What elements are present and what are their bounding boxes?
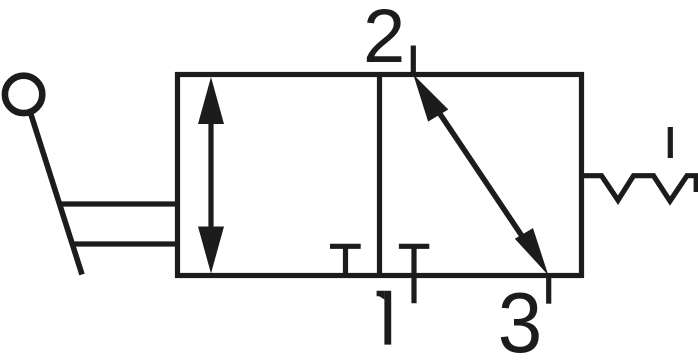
diagonal flow arrow head top <box>413 75 448 122</box>
lever upper link <box>60 201 178 206</box>
valve body outline <box>178 75 582 276</box>
blocked port T left <box>330 246 361 275</box>
lever knob circle <box>5 76 42 113</box>
port label 1 <box>377 291 392 345</box>
port 2 stub <box>411 46 416 75</box>
blocked port T right <box>399 244 429 249</box>
spring tick mark <box>668 127 673 158</box>
lever lower link <box>72 241 178 246</box>
port 1 stub <box>411 246 416 303</box>
return spring <box>583 176 698 201</box>
diagonal flow arrow head bottom <box>515 228 549 275</box>
spring end bar <box>694 176 698 192</box>
port label 3 <box>498 274 542 360</box>
port 3 stub <box>546 276 551 304</box>
svg-text:3: 3 <box>498 274 542 360</box>
vertical flow arrow shaft <box>208 110 213 240</box>
diagonal flow arrow shaft <box>432 102 530 248</box>
svg-text:2: 2 <box>363 0 405 79</box>
vertical flow arrow head top <box>198 77 224 124</box>
lever arm <box>31 115 82 275</box>
position divider <box>377 75 382 276</box>
vertical flow arrow head bottom <box>198 227 224 274</box>
